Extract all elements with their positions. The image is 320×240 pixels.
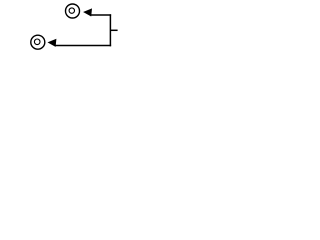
wire bottom horizontal	[55, 45, 111, 47]
terminal A (double-circle connector, top)	[66, 4, 80, 18]
stub wire (mid bus, to the right)	[110, 29, 117, 31]
arrowhead into terminal A	[83, 8, 92, 16]
terminal B (double-circle connector, bottom)	[31, 35, 45, 49]
wire top horizontal	[91, 14, 112, 16]
arrowhead into terminal B	[48, 39, 57, 47]
wire vertical bus	[109, 14, 111, 46]
